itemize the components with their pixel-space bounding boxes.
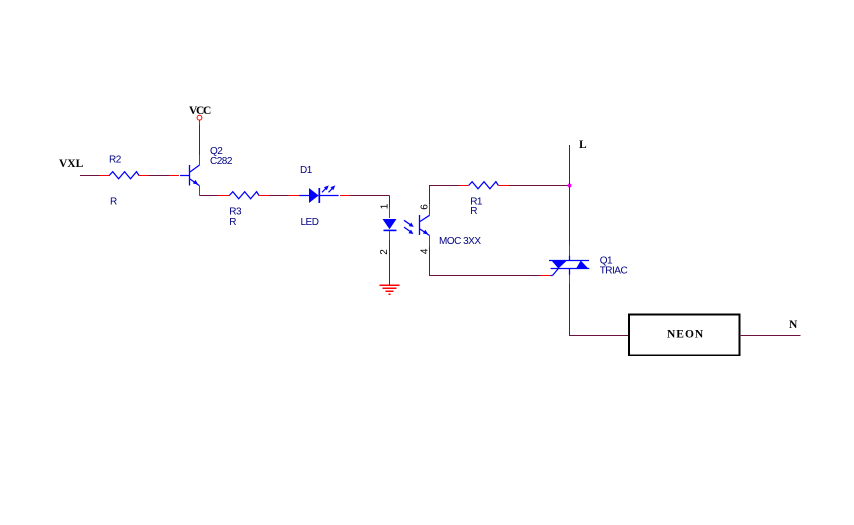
svg-text:R: R [229, 217, 236, 228]
pin D1 cathode [340, 195, 350, 197]
wire R2 to Q2 base [149, 175, 170, 177]
svg-text:1: 1 [380, 203, 391, 209]
pin 1 of opto [389, 207, 391, 218]
svg-text:N: N [789, 319, 798, 331]
svg-text:VCC: VCC [189, 105, 211, 117]
svg-text:6: 6 [420, 204, 431, 210]
svg-text:VXL: VXL [59, 158, 84, 170]
wire opto pin4 to gate [430, 246, 541, 275]
pin D1 anode [289, 195, 300, 197]
svg-text:TRIAC: TRIAC [600, 266, 628, 277]
wire emitter to R3 [200, 195, 219, 197]
wire D1 to opto pin1 [350, 195, 390, 197]
svg-text:C282: C282 [210, 156, 233, 167]
pin R2 right [139, 175, 149, 177]
svg-text:R: R [470, 206, 477, 217]
transistor Q2 [180, 165, 200, 186]
pin 4 of opto [429, 236, 431, 247]
svg-text:D1: D1 [300, 165, 313, 176]
pin R3 left [218, 195, 229, 197]
pin R1 right [498, 185, 509, 187]
svg-text:LED: LED [301, 217, 319, 228]
resistor R3 [229, 192, 259, 199]
wire L down to triac [569, 145, 571, 245]
svg-text:4: 4 [420, 248, 431, 254]
pin R3 right [259, 195, 270, 197]
resistor R1 [469, 182, 499, 189]
wire opto pin2 to ground [389, 241, 391, 286]
wire VXL to R2 [80, 175, 100, 177]
pin triac gate [541, 275, 551, 277]
wire opto pin6 up to R1 row [430, 186, 459, 205]
pin 2 of opto [389, 231, 391, 241]
NEON lamp box [629, 315, 740, 356]
pin Q2 collector [199, 155, 201, 165]
wire corner down [389, 196, 391, 208]
triac Q1 [549, 256, 589, 276]
junction dot [568, 184, 572, 188]
pin R1 left [459, 185, 469, 187]
pin R2 left [100, 175, 110, 177]
wire R1 to L line [509, 185, 569, 187]
wire R3 to D1 [270, 195, 289, 197]
wire triac to NEON [570, 284, 630, 336]
pin triac MT1 [569, 275, 571, 284]
pin 6 of opto [429, 204, 431, 215]
pin Q2 emitter [199, 186, 201, 196]
svg-text:R: R [110, 197, 117, 208]
svg-text:MOC 3XX: MOC 3XX [439, 236, 481, 247]
power port VCC [199, 120, 201, 125]
pin Q2 base [169, 175, 179, 177]
resistor R2 [109, 172, 139, 179]
ground [379, 285, 399, 294]
svg-text:2: 2 [379, 249, 390, 255]
svg-text:L: L [579, 139, 587, 151]
wire NEON to N [740, 335, 801, 337]
svg-text:R2: R2 [109, 155, 122, 166]
pin triac MT2 [569, 245, 571, 256]
wire collector to VCC [199, 125, 201, 155]
LED D1 [299, 185, 338, 203]
optocoupler phototransistor MOC 3XX [420, 215, 430, 236]
optocoupler photodiode MOC 3XX [383, 219, 414, 234]
svg-text:NEON: NEON [667, 329, 704, 341]
